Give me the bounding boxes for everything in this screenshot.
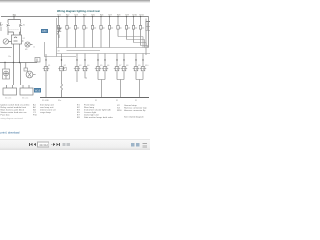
wire routing step 1 [118,37,143,48]
svg-text:F211: F211 [140,14,144,16]
relay K1 [57,27,61,38]
frame sheet reference box [146,22,150,31]
svg-text:E5: E5 [100,65,102,67]
svg-text:E1: E1 [48,65,50,67]
node junction dots left [4,62,20,63]
ground labels [42,100,137,102]
wire routing step 2 [127,40,145,48]
toolbar nav first-page button [29,143,36,146]
fuse row labels above bus [13,14,144,16]
fuse F4 [83,17,88,48]
lamp E6 pair right [98,54,108,98]
svg-text:41/412: 41/412 [39,143,48,147]
node A50 link label [41,29,48,33]
toolbar menu icon [143,143,148,147]
toolbar nav prev button [34,143,36,146]
wire right border vertical [148,17,150,48]
relay K2 box [12,35,22,44]
toolbar nav last-page button [57,143,59,146]
connector X3 [20,88,33,95]
lamp H1 [25,42,30,47]
wire tag labels small [8,25,60,59]
svg-text:See related diagram: See related diagram [124,116,144,119]
lamp E10 pair right [136,54,146,98]
svg-text:12: 12 [33,47,35,49]
lamp value labels [48,65,148,67]
wire main supply bus [1,16,149,18]
switch S0 edge [0,22,3,31]
ground bus [40,97,149,99]
svg-text:E10: E10 [145,65,148,67]
wire drops mid [14,44,20,63]
wire drops lower [5,63,26,86]
switch S1 [7,22,10,29]
motor M1 [3,69,10,79]
svg-text:31: 31 [116,100,118,102]
wire routing step 4 [141,46,148,48]
svg-text:W16: W16 [35,89,41,93]
wire drops to relay box [8,29,21,35]
svg-text:E8: E8 [126,65,128,67]
node second row dots [45,59,143,60]
svg-text:K2: K2 [23,38,25,40]
second row lamp symbols [43,54,146,98]
svg-text:E9: E9 [138,65,140,67]
wire left frame vertical [56,18,58,57]
connector X3 pins [23,85,29,88]
sensor B1 [3,39,8,44]
fuse F11 [139,17,144,46]
fuse F5 [91,17,96,48]
node bus junction dots [13,16,141,17]
fuse F10 [132,17,137,43]
svg-text:print | download: print | download [1,131,20,135]
fuse F2 [66,17,71,48]
svg-text:A50: A50 [42,29,47,33]
svg-text:E4: E4 [87,65,89,67]
svg-text:X8: X8 [58,51,60,53]
svg-text:Side marker lamps both sides: Side marker lamps both sides [84,116,114,119]
wire branch T [8,17,21,23]
svg-text:15a: 15a [8,56,11,58]
legend mid column [77,104,114,120]
svg-text:F28: F28 [117,14,120,16]
svg-text:E3: E3 [79,65,81,67]
legend right column [117,104,147,119]
toolbar background [0,140,150,150]
lamp E1 [43,54,49,98]
svg-text:W16: W16 [117,110,122,112]
svg-text:Fuse box: Fuse box [1,115,11,117]
svg-text:F210: F210 [133,14,137,16]
fuse F3 [74,17,79,48]
svg-text:F24: F24 [83,14,86,16]
wire routing step 3 [134,43,147,48]
lamp E5 pair left [95,54,101,80]
toolbar fit-page icon [136,143,140,147]
toolbar zoom-in icon [67,143,70,146]
svg-text:F29: F29 [126,14,129,16]
toolbar zoom-dash [51,143,53,146]
wire routing bus A [57,47,149,49]
svg-text:Harness connector 8p: Harness connector 8p [124,109,146,112]
fuse F8 [117,17,122,37]
svg-text:wiring diagram continued: wiring diagram continued [1,117,23,120]
legend left column [1,104,56,117]
lamp E7 pair left [114,54,120,80]
wire mid frame [45,42,77,57]
switch S2 [19,22,22,29]
terminal X1 [35,58,40,63]
svg-text:31 GND: 31 GND [42,100,49,102]
svg-text:F22: F22 [66,14,69,16]
svg-text:Wiring diagram lighting circui: Wiring diagram lighting circuit rear [57,9,100,13]
svg-text:S2: S2 [23,25,25,27]
lamp E9 pair left [133,54,139,80]
wire routing bus C [57,53,151,55]
left section [0,17,40,96]
lamp E2 [58,54,66,98]
toolbar page input box [37,142,48,147]
svg-text:X2 conn: X2 conn [5,98,11,100]
fuse F9 [125,17,130,40]
svg-text:E6: E6 [107,65,109,67]
fuse F6 [100,17,105,48]
svg-text:E2: E2 [64,65,66,67]
connector labels [5,98,28,100]
wire horizontal collector [0,59,37,63]
connector X2 pins [7,85,13,88]
pump M2 [24,68,28,71]
svg-text:F21: F21 [58,14,61,16]
fuse F1 [57,17,62,48]
svg-text:F27: F27 [109,14,112,16]
svg-text:E7: E7 [119,65,121,67]
lamp E3 [74,54,80,83]
svg-text:cargo lamp: cargo lamp [40,111,52,114]
svg-text:31: 31 [95,100,97,102]
toolbar nav next button [53,143,60,146]
svg-text:F25: F25 [92,14,95,16]
svg-text:31: 31 [135,100,137,102]
lamp E4 [82,54,88,79]
wire dashed link [10,29,20,31]
toolbar divider [0,138,150,141]
node W16 link label [34,88,41,92]
wire line left [0,47,12,49]
toolbar zoom-out icon [62,143,65,146]
svg-text:X3 conn: X3 conn [22,98,28,100]
svg-text:F23: F23 [75,14,78,16]
connector X2 [3,88,17,95]
toolbar fit-width icon [131,143,135,147]
svg-text:F26: F26 [100,14,103,16]
lamp E8 pair right [117,54,127,98]
svg-text:M3: M3 [25,49,27,51]
wire outer frame vertical [145,19,147,56]
wire routing bus B [67,50,101,52]
fuse F7 [108,17,113,48]
top window shadow band [0,0,150,3]
